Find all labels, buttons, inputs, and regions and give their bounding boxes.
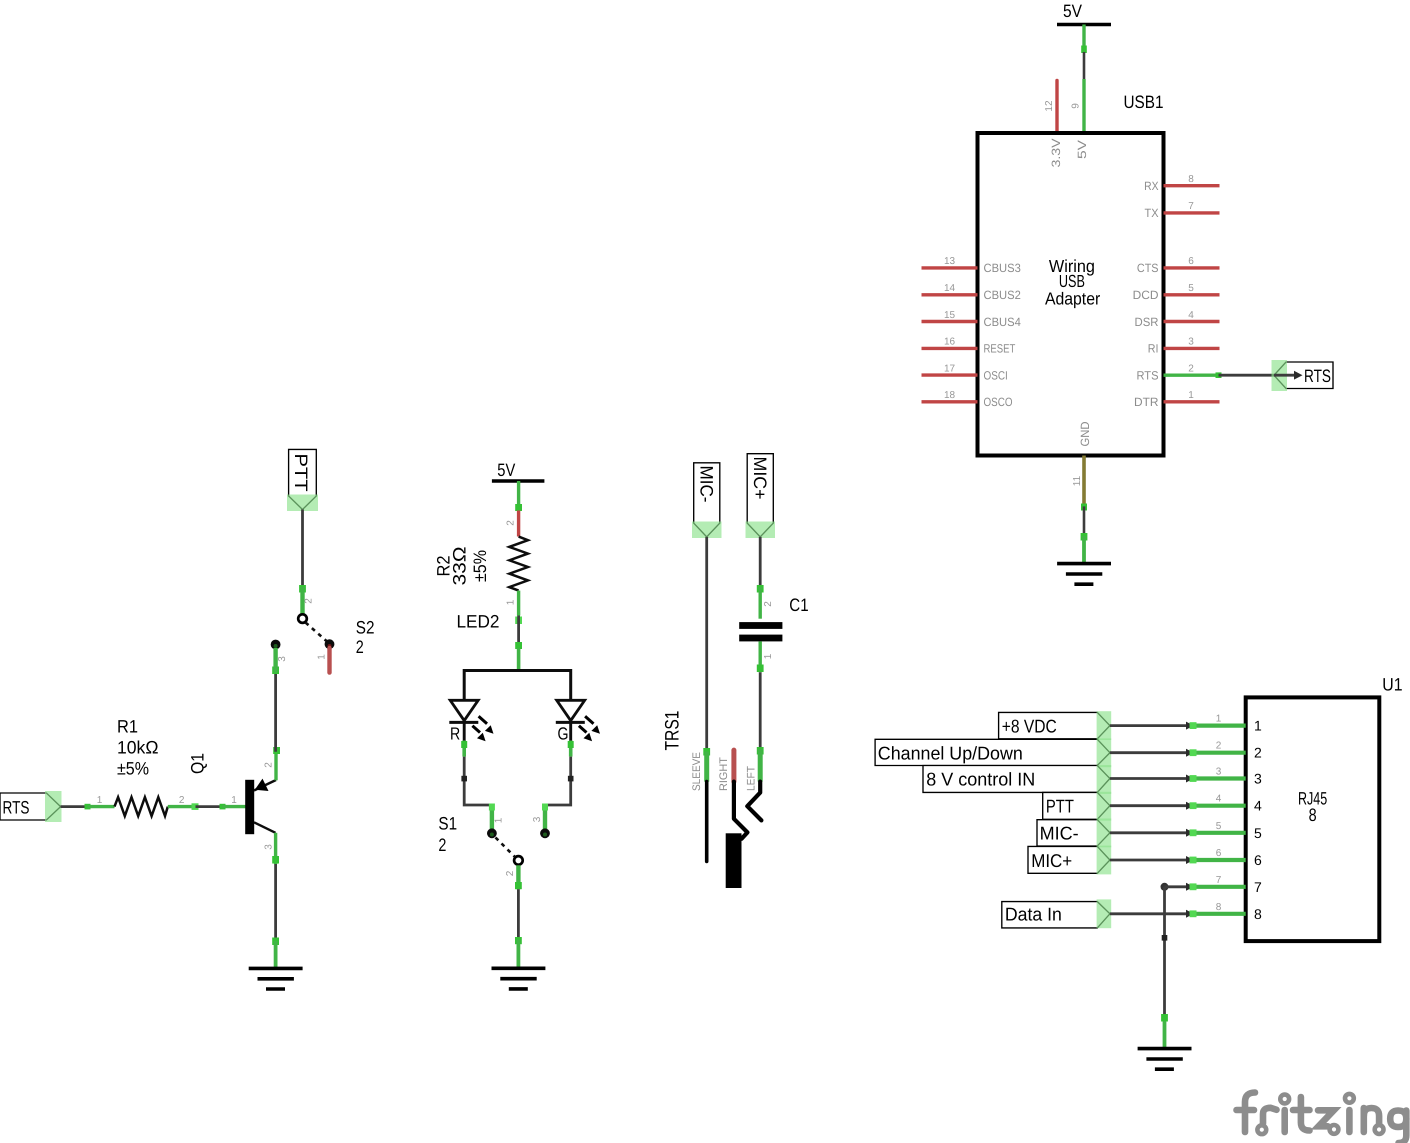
wire PTT to pin 4 [1110,802,1194,810]
svg-text:2: 2 [264,762,275,768]
ground (S1) [492,968,546,989]
svg-text:2: 2 [179,795,185,806]
S2 pin 3 node [271,640,281,650]
svg-text:RTS: RTS [3,797,30,817]
resistor R2 33 ohm [434,511,528,616]
net label MIC+ (RJ45) [1028,846,1111,875]
svg-text:1: 1 [506,599,517,605]
ground (USB1) [1057,564,1111,585]
wire MIC+ to pin 6 [1110,856,1194,864]
svg-text:5V: 5V [1075,140,1089,159]
svg-text:RIGHT: RIGHT [718,757,730,791]
T branch [464,671,571,700]
USB1 pin 16 RESET [922,337,1016,356]
common anode leg [517,648,521,671]
wire S1 pin 2 to ground [515,882,522,968]
IC USB1 Wiring USB Adapter body [978,92,1164,456]
svg-text:7: 7 [1254,879,1262,895]
net label PTT (RJ45) [1043,792,1112,821]
svg-text:MIC-: MIC- [1040,823,1079,844]
S2 dashed actuator [306,623,328,642]
S2 pin 1 node (unconnected, red) [325,639,335,649]
svg-text:CBUS4: CBUS4 [984,315,1022,329]
net label MIC- [692,463,722,538]
net label 8 V control IN [923,765,1111,794]
svg-text:R1: R1 [117,717,138,737]
svg-text:8: 8 [1188,174,1194,185]
net label MIC+ [746,454,776,538]
power symbol 5V (top) [1057,1,1111,25]
wire 8 V control IN to pin 3 [1110,775,1194,783]
sleeve conductor [705,782,709,862]
svg-text:LEFT: LEFT [746,766,758,791]
svg-text:CBUS3: CBUS3 [984,261,1022,275]
transistor Q1 [188,752,277,864]
USB1 pin 8 RX [1144,174,1219,193]
svg-text:5: 5 [1216,821,1222,832]
RJ45 pin 1 [1190,714,1263,734]
ground (RJ45 pin 7) [1138,1049,1192,1070]
svg-text:3: 3 [1216,767,1222,778]
svg-text:18: 18 [944,390,956,401]
svg-text:TX: TX [1145,206,1159,220]
RJ45 pin 7 [1190,875,1263,895]
svg-text:SLEEVE: SLEEVE [691,752,703,791]
svg-text:8: 8 [1216,902,1222,913]
S1 pin 3 leg and node [543,804,547,830]
svg-text:Q1: Q1 [188,753,208,774]
capacitor C1 [739,587,808,672]
svg-text:1: 1 [763,653,774,659]
USB1 pin 15 CBUS4 [922,310,1022,329]
svg-text:12: 12 [1044,100,1055,112]
net label RTS (right) [1272,360,1334,391]
svg-text:5V: 5V [1063,1,1082,21]
svg-text:7: 7 [1188,201,1194,212]
svg-text:1: 1 [1188,390,1194,401]
S1 pivot circle [514,856,523,865]
fritzing watermark [1237,1093,1407,1143]
resistor R1 10k [88,717,196,817]
wire Q1 emitter to ground [272,856,279,968]
svg-text:DTR: DTR [1134,395,1159,409]
wire Channel Up/Down to pin 2 [1110,749,1194,757]
USB1 pin 14 CBUS2 [922,283,1022,302]
USB1 pin 18 OSCO [922,390,1013,409]
svg-text:5V: 5V [497,460,515,480]
svg-text:1: 1 [1216,714,1222,725]
svg-text:MIC+: MIC+ [750,457,770,500]
svg-text:3: 3 [1254,771,1262,787]
svg-text:3: 3 [277,656,288,662]
wire Q1 collector to S2 pin 3 [272,667,280,755]
svg-text:14: 14 [944,283,956,294]
svg-text:RTS: RTS [1137,369,1159,383]
USB1 pin 2 RTS green leg [1137,364,1219,383]
svg-text:8: 8 [1254,906,1262,922]
sleeve pin leg [704,751,709,781]
wire +8 VDC to pin 1 [1110,722,1194,730]
USB1 pin 11 GND leg (olive) [1072,456,1084,507]
svg-text:13: 13 [944,256,956,267]
USB1 pin 1 DTR [1134,390,1220,409]
USB1 pin 17 OSCI [922,363,1008,382]
svg-text:R: R [450,724,460,744]
svg-text:4: 4 [1254,798,1262,814]
left pin leg [758,749,763,782]
svg-text:6: 6 [1254,852,1262,868]
svg-text:8: 8 [1309,805,1317,825]
RJ45 pin 8 [1190,902,1263,922]
svg-text:7: 7 [1216,875,1222,886]
svg-text:9: 9 [1071,103,1082,109]
svg-text:1: 1 [317,654,328,660]
svg-text:1: 1 [97,795,103,806]
svg-text:2: 2 [1216,741,1222,752]
wire red LED cathode to S1 pin 1 [461,741,492,805]
svg-text:G: G [558,724,569,744]
svg-text:CBUS2: CBUS2 [984,288,1022,302]
svg-text:GND: GND [1078,421,1092,446]
svg-text:Adapter: Adapter [1045,288,1100,308]
switch S2 [271,587,375,673]
svg-text:±5%: ±5% [470,550,490,582]
wire green LED cathode to S1 pin 3 [545,741,574,805]
svg-text:MIC-: MIC- [697,466,717,503]
ground (Q1 emitter) [249,968,303,989]
USB1 pin 9 (5V) green leg [1071,79,1085,133]
wire 5V rail to USB1 pin 9 [1081,25,1087,80]
S1 dashed actuator [496,838,515,857]
svg-text:2: 2 [506,520,517,526]
net label Channel Up/Down [875,738,1111,767]
svg-text:10kΩ: 10kΩ [117,738,159,758]
RJ45 pin 6 [1190,848,1263,868]
svg-text:3: 3 [264,844,275,850]
S1 pin 1 leg and node [490,804,494,830]
svg-text:Channel Up/Down: Channel Up/Down [878,743,1023,764]
svg-text:2: 2 [1254,745,1262,761]
right pin leg (unconnected) [731,750,736,782]
USB1 pin 4 DSR [1135,310,1220,329]
red LED light arrows [479,716,487,724]
svg-text:±5%: ±5% [117,759,149,779]
USB1 pin 13 CBUS3 [922,256,1022,275]
svg-text:5: 5 [1188,283,1194,294]
RJ45 U1 body [1246,674,1403,941]
svg-text:LED2: LED2 [457,612,500,632]
wire MIC- to TRS1 sleeve [703,537,710,756]
USB1 pin 6 CTS [1137,256,1220,275]
TRS1 jack [662,711,762,889]
svg-text:RX: RX [1144,179,1158,193]
svg-text:OSCI: OSCI [984,368,1008,382]
S1 pin 2 leg [516,865,520,889]
wire Data In to pin 8 [1110,910,1194,918]
svg-text:3: 3 [1188,337,1194,348]
svg-text:PTT: PTT [1046,796,1074,817]
S2 pin 2 leg [300,587,304,614]
USB1 pin 3 RI [1148,337,1220,356]
svg-text:2: 2 [763,601,774,607]
wire R1 to Q1 base [192,803,226,810]
svg-text:Data In: Data In [1005,904,1062,925]
svg-text:PTT: PTT [291,454,311,492]
green LED cathode leg [569,741,573,757]
wire RTS pin to RTS net label [1216,372,1275,378]
svg-text:TRS1: TRS1 [662,711,684,751]
green LED triangle [557,700,585,720]
wire MIC- to pin 5 [1110,829,1194,837]
svg-text:1: 1 [231,795,237,806]
svg-text:OSCO: OSCO [984,395,1013,409]
svg-text:USB1: USB1 [1124,92,1164,112]
svg-text:1: 1 [1254,718,1262,734]
net label Data In [1002,899,1111,928]
svg-text:2: 2 [304,598,315,604]
USB1 pin 7 TX [1145,201,1220,220]
RJ45 pin 2 [1190,741,1263,761]
net label +8 VDC [999,711,1112,740]
LED2 dual LED R/G [449,612,600,757]
svg-text:3: 3 [532,816,543,822]
svg-text:+8 VDC: +8 VDC [1002,715,1057,736]
svg-text:11: 11 [1072,475,1083,486]
RJ45 pin 5 [1190,821,1263,841]
wire 5V rail to R2 [515,481,522,511]
wire GND pin to ground [1081,504,1088,564]
svg-text:2: 2 [505,870,516,876]
svg-text:1: 1 [494,817,505,823]
svg-text:RESET: RESET [984,342,1016,356]
USB1 pin 12 (3.3V) red leg [1044,81,1057,134]
switch S1 [438,804,549,890]
net label MIC- (RJ45) [1037,819,1111,848]
svg-text:2: 2 [1188,364,1194,375]
USB1 pin 5 DCD [1133,283,1220,302]
svg-text:15: 15 [944,310,956,321]
net label PTT [287,449,318,511]
RJ45 pin 4 [1190,794,1263,814]
svg-text:4: 4 [1216,794,1222,805]
wire RTS label to R1 [61,804,91,810]
RJ45 pin 3 [1190,767,1263,787]
svg-text:3.3V: 3.3V [1049,139,1063,168]
svg-text:DCD: DCD [1133,288,1159,302]
wire pin 7 to ground junction [1161,883,1194,1021]
svg-text:6: 6 [1216,848,1222,859]
svg-text:4: 4 [1188,310,1194,321]
svg-text:RI: RI [1148,342,1159,356]
svg-text:U1: U1 [1382,674,1402,694]
svg-text:17: 17 [944,363,956,374]
svg-text:5: 5 [1254,825,1262,841]
right contact [734,782,748,839]
power symbol 5V (left) [492,460,545,481]
svg-text:2: 2 [356,637,364,657]
red LED triangle [450,700,478,720]
left contact [747,782,761,821]
net label RTS (left) [0,791,62,822]
wire PTT label to S2 pin 2 [299,510,306,593]
svg-text:RTS: RTS [1304,366,1331,386]
svg-text:8 V control IN: 8 V control IN [926,768,1035,789]
svg-text:S1: S1 [438,813,457,833]
svg-text:MIC+: MIC+ [1031,850,1072,871]
plug body [726,833,742,888]
wire MIC+ to C1 [757,537,764,593]
svg-text:CTS: CTS [1137,261,1159,275]
svg-text:DSR: DSR [1135,315,1159,329]
svg-text:33Ω: 33Ω [450,547,470,586]
red LED cathode leg [462,741,466,757]
wire C1 to TRS1 left [757,665,764,755]
wire junction to ground (RJ45) [1161,1014,1168,1049]
svg-text:16: 16 [944,337,956,348]
wire R2 to LED2 [515,616,522,650]
S2 pivot circle [298,614,307,623]
svg-text:C1: C1 [789,595,808,615]
green LED light arrows [585,716,593,724]
svg-text:2: 2 [438,835,446,855]
svg-text:S2: S2 [356,618,375,638]
svg-text:6: 6 [1188,256,1194,267]
